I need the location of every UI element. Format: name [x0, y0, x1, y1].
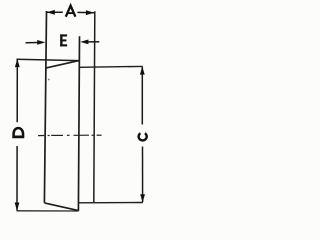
top bevel edge	[45, 61, 78, 68]
dimension D label (rotated 90deg CCW)	[12, 127, 24, 139]
dimension A right arrowhead	[86, 10, 94, 15]
dimension E right leader line	[87, 41, 100, 43]
part top edge with D top extension line	[17, 59, 79, 60]
flange top edge with C top extension line	[79, 65, 143, 68]
dimension D bottom arrowhead (pointing down)	[15, 203, 20, 211]
flange outer edge with A right extension line	[94, 11, 95, 203]
dimension C bottom arrowhead (pointing down)	[140, 194, 145, 202]
dimension D top arrowhead (pointing up)	[15, 59, 20, 67]
dimension C label (rotated 90deg CCW)	[139, 133, 147, 140]
part bottom edge with D bottom extension line	[17, 210, 79, 212]
dimension E left arrowhead (pointing right)	[37, 40, 45, 45]
dimension E right arrowhead (pointing left)	[80, 40, 88, 45]
part inner right edge with E right extension line	[78, 36, 79, 211]
dimension C top arrowhead (pointing up)	[140, 66, 145, 74]
dimension E label	[60, 34, 67, 46]
dimension D line upper segment	[16, 59, 18, 122]
dimension A line right segment	[77, 11, 94, 13]
dimension A label	[66, 6, 76, 17]
centerline (dash-dot)	[38, 134, 102, 136]
dimension A line left segment	[47, 11, 63, 13]
dimension C line upper segment	[141, 67, 143, 125]
part left edge with A/E left extension line	[44, 11, 46, 203]
dimension D line lower segment	[16, 146, 18, 210]
scan speck	[48, 79, 50, 81]
flange bottom edge with C bottom extension line	[79, 202, 143, 204]
bottom bevel edge	[44, 203, 78, 211]
dimension C line lower segment	[142, 147, 144, 203]
dimension E left leader line	[26, 42, 40, 44]
dimension A left arrowhead	[47, 10, 55, 15]
